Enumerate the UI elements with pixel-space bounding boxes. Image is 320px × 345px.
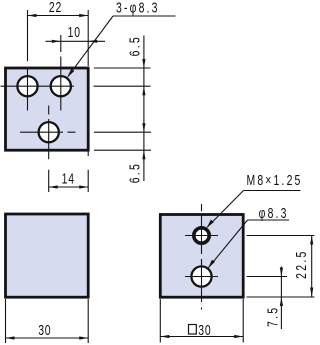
ext line bottom edge right <box>94 149 151 151</box>
svg-text:6.5: 6.5 <box>127 162 143 183</box>
dim 22 arrow left <box>28 14 37 17</box>
svg-text:30: 30 <box>198 323 211 339</box>
view A body (top-left square, front view) <box>6 68 89 150</box>
dim 14 right ext line <box>87 152 89 193</box>
view B body (bottom-left square, side view) <box>6 214 89 297</box>
svg-text:10: 10 <box>68 24 81 40</box>
svg-text:3-φ8.3: 3-φ8.3 <box>116 0 160 16</box>
hole H1 centerline vertical / ext line for dim 22 <box>27 10 29 111</box>
hole H1 <box>17 76 37 96</box>
dim square30 square symbol <box>189 325 197 335</box>
dim 30 ext lines <box>6 299 89 343</box>
hole H4 (M8 tap) centerline horizontal <box>185 235 218 237</box>
dim 30 arrow left <box>6 336 15 339</box>
dim 10 dimension line <box>46 40 106 42</box>
dim 7.5 arrows (outside) <box>280 268 283 277</box>
dim 22 arrow right <box>79 14 88 17</box>
ext line top edge right <box>94 67 151 69</box>
dim square30 dimension line <box>160 336 243 338</box>
hole H1 centerline horizontal (shared with H2) <box>1 85 75 87</box>
view C body (bottom-right square, back view) <box>160 215 243 298</box>
leader M8x1.25 underline <box>244 190 301 192</box>
svg-text:φ8.3: φ8.3 <box>259 205 289 221</box>
dim 6.5 vertical dimension line <box>143 36 145 182</box>
ext line H5 center right <box>247 276 288 278</box>
hole H2 <box>51 76 71 96</box>
dim square30 arrow right <box>234 335 243 338</box>
leader 3-phi8.3 diagonal <box>68 16 113 77</box>
dim 22 dimension line <box>28 15 89 17</box>
leader 3-phi8.3 arrowhead <box>67 69 74 77</box>
leader M8x1.25 arrowhead <box>207 220 214 228</box>
leader 3-phi8.3 underline <box>113 15 176 17</box>
ext line right edge (for dims 22,10) <box>87 10 89 66</box>
hole H3 centerline horizontal <box>20 131 76 133</box>
dim 10 arrow right (outside) <box>88 40 97 43</box>
dim 6.5 top arrows <box>142 59 145 68</box>
svg-text:22.5: 22.5 <box>293 249 309 279</box>
dim 22.5 dimension line <box>311 236 313 298</box>
leader phi8.3 diagonal <box>208 220 247 268</box>
dim 14 arrow left <box>49 185 58 188</box>
svg-text:6.5: 6.5 <box>127 35 143 56</box>
svg-text:14: 14 <box>62 171 75 187</box>
dim 30 arrow right <box>79 336 88 339</box>
ext line H4 center right <box>247 235 315 237</box>
dim square30 ext lines <box>160 299 243 343</box>
dim 14 arrow right <box>79 185 88 188</box>
dim 10 arrow left (outside) <box>52 40 61 43</box>
dim square30 arrow left <box>160 335 169 338</box>
hole H2 centerline vertical / ext line for dim 10 <box>60 35 62 111</box>
hole H3 <box>39 122 59 142</box>
svg-text:22: 22 <box>49 0 62 16</box>
dim 6.5 bottom arrows <box>142 123 145 132</box>
dim 7.5 dimension line <box>280 267 282 330</box>
hole H3 centerline vertical / ext line for dim 14 <box>48 106 50 193</box>
svg-text:M8×1.25: M8×1.25 <box>246 172 302 188</box>
hole H5 centerline horizontal <box>185 276 218 278</box>
ext line bottom edge right <box>247 296 315 298</box>
hole H4 (M8 tapped hole) <box>194 228 209 243</box>
dim 14 dimension line <box>49 186 88 188</box>
dim 22.5 arrows <box>310 236 313 245</box>
leader M8x1.25 diagonal <box>207 191 244 228</box>
svg-text:30: 30 <box>38 323 51 339</box>
ext line H3 center right <box>94 131 151 133</box>
dim 30 dimension line <box>6 337 89 339</box>
hole H5 (phi 8.3 through hole) <box>191 266 211 286</box>
leader phi8.3 arrowhead <box>208 260 215 268</box>
ext line H1/H2 center right <box>94 85 151 87</box>
view C vertical centerline <box>201 204 203 310</box>
leader phi8.3 underline <box>248 219 290 221</box>
svg-text:7.5: 7.5 <box>265 306 281 327</box>
